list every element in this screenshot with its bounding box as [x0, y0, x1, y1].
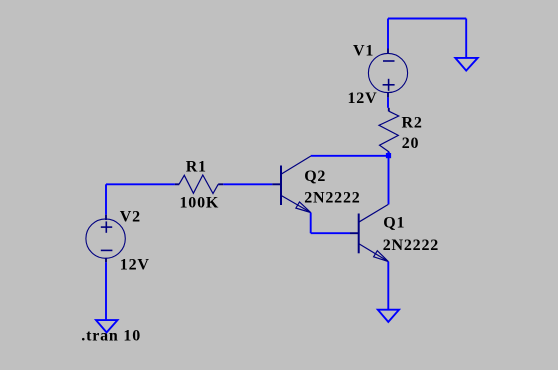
wire — [387, 97, 389, 107]
wire — [311, 232, 350, 234]
wire — [106, 183, 175, 185]
node junction — [386, 153, 391, 158]
wire — [311, 155, 389, 157]
wire — [388, 18, 466, 20]
svg-text:Q1: Q1 — [383, 215, 405, 232]
svg-text:100K: 100K — [180, 195, 220, 212]
wire — [387, 19, 389, 49]
resistor R1 — [175, 175, 223, 194]
voltage source V1 — [368, 49, 407, 98]
resistor R2 — [379, 108, 399, 156]
wire — [465, 19, 467, 58]
wire — [105, 262, 107, 320]
svg-text:.tran 10: .tran 10 — [81, 328, 141, 345]
ground — [96, 320, 118, 332]
svg-text:2N2222: 2N2222 — [304, 190, 360, 207]
svg-text:V2: V2 — [120, 209, 141, 226]
svg-text:Q2: Q2 — [304, 168, 326, 185]
wire — [387, 262, 389, 310]
svg-text:R1: R1 — [186, 159, 207, 176]
voltage source V2 — [86, 215, 125, 263]
wire — [105, 184, 107, 214]
wire — [388, 152, 390, 205]
svg-text:2N2222: 2N2222 — [383, 237, 439, 254]
svg-text:V1: V1 — [353, 43, 374, 60]
wire — [310, 213, 312, 234]
transistor Q2 — [272, 156, 310, 212]
wire — [223, 183, 272, 185]
transistor Q1 — [350, 204, 388, 261]
svg-text:20: 20 — [402, 135, 420, 152]
svg-text:12V: 12V — [348, 90, 378, 107]
ground — [455, 58, 477, 71]
svg-text:R2: R2 — [402, 115, 423, 132]
ground — [378, 310, 399, 322]
svg-text:12V: 12V — [120, 257, 150, 274]
